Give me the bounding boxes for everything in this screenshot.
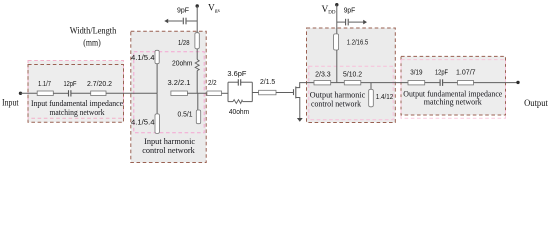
wire: TL14 to C5 <box>425 82 440 84</box>
transistor Q1 channel bar <box>295 87 297 99</box>
svg-text:matching network: matching network <box>50 107 106 117</box>
transmission line TL5 3.2/2.1 <box>171 91 188 96</box>
svg-text:5/10.2: 5/10.2 <box>343 71 362 78</box>
box: input fundamental matching network pink dashed border <box>28 61 124 119</box>
wire: TL1 to C1 <box>53 92 68 94</box>
caption: Input harmonic control network <box>142 136 195 155</box>
capacitor C1 12pF (series, input matching) <box>69 90 71 96</box>
transmission line TL15 1.07/7 <box>458 81 474 85</box>
box: input fundamental matching network (fill) <box>28 61 124 123</box>
wire: stub 1/28 to resistor R1 <box>196 49 198 60</box>
parallel RC stabilising network C3 3.6pF / R2 40ohm <box>228 82 252 101</box>
stub TL4 4.1/5.4 (open stub down at node A) <box>155 93 159 133</box>
svg-text:3/19: 3/19 <box>410 70 422 77</box>
wire: TL12 to node C and on to TL14 <box>361 82 408 84</box>
box: output fundamental matching network (fill) <box>401 56 506 115</box>
box: input harmonic control network (fill) <box>131 31 206 162</box>
transistor Q1 (FET) gate bar <box>293 89 295 95</box>
svg-text:4.1/5.4: 4.1/5.4 <box>131 120 155 127</box>
svg-text:2/1.5: 2/1.5 <box>260 79 275 86</box>
wire: TL15 to output dot <box>474 82 519 84</box>
resistor R2 40ohm (bottom branch) <box>228 100 252 104</box>
svg-text:1.2/16.5: 1.2/16.5 <box>347 40 368 47</box>
wire: C1 to TL2 <box>71 92 90 94</box>
wire: drain bias branch right segment <box>349 21 364 23</box>
svg-text:3.2/2.1: 3.2/2.1 <box>168 80 191 87</box>
box: output fundamental matching network red dashed border <box>401 56 506 115</box>
svg-text:2/3.3: 2/3.3 <box>315 71 331 78</box>
node: Vdd bias terminal dot <box>335 3 338 6</box>
wire: C5 to TL15 <box>443 82 457 84</box>
svg-text:9pF: 9pF <box>177 7 189 14</box>
capacitor C2 9pF (gate bias decoupling) <box>183 18 186 25</box>
box: input harmonic control network red dashed border <box>131 31 206 162</box>
svg-text:(mm): (mm) <box>83 37 101 48</box>
wire: gate bias branch left segment <box>166 20 183 22</box>
wire: input dot to TL1 <box>21 92 38 94</box>
transmission line TL1 1.1/7 <box>37 91 53 96</box>
transmission line TL11 2/3.3 <box>314 81 331 85</box>
caption: Output fundamental impedance matching network <box>403 88 502 106</box>
stub TL13 1.4/12 (open stub down at node C) <box>369 83 374 107</box>
box: output harmonic control network red dashed border <box>307 28 396 123</box>
svg-text:matching network: matching network <box>424 97 483 107</box>
capacitor C3 3.6pF (top branch) <box>228 79 252 85</box>
wire: gate bias branch right segment <box>187 20 198 22</box>
svg-text:control network: control network <box>311 99 362 109</box>
wire: Vdd dot down to stub 1.2/16.5 <box>336 5 338 34</box>
legend: Width/Length (mm) <box>70 27 117 49</box>
box: input fundamental matching network red dashed border <box>28 65 124 123</box>
wire: drain bias branch left segment <box>337 21 345 23</box>
stub TL7 0.5/1 (open stub down at node B) <box>196 93 200 123</box>
svg-text:Output: Output <box>524 99 548 109</box>
svg-text:1/28: 1/28 <box>178 40 190 47</box>
transmission line TL14 3/19 <box>408 81 425 85</box>
svg-text:12pF: 12pF <box>64 81 77 88</box>
svg-text:2.7/20.2: 2.7/20.2 <box>87 81 112 88</box>
box: input harmonic control network inner pink dashed border <box>134 52 204 133</box>
svg-text:3.6pF: 3.6pF <box>227 71 246 78</box>
node: Vgs bias terminal dot <box>196 4 199 7</box>
svg-text:9pF: 9pF <box>344 7 356 14</box>
wire: stub 1.2/16.5 down to output line node <box>336 50 338 83</box>
box: output harmonic control network inner pink dashed border <box>309 66 393 120</box>
svg-text:1.07/7: 1.07/7 <box>456 70 476 77</box>
wire: Q1 source down <box>296 98 300 119</box>
wire: TL9 to gate of Q1 <box>276 92 294 94</box>
svg-text:40ohm: 40ohm <box>229 109 249 116</box>
stub TL6 1/28 (gate bias line) <box>195 33 199 49</box>
resistor R1 20ohm <box>195 60 199 71</box>
wire: RC network to TL9 <box>252 92 258 94</box>
capacitor C5 12pF (series, output matching) <box>440 79 443 86</box>
ground (source of Q1, arrow symbol) <box>297 118 303 122</box>
svg-text:2/2: 2/2 <box>208 80 217 87</box>
svg-text:Input: Input <box>2 98 19 108</box>
transmission line TL8 2/2 <box>207 91 222 96</box>
terminal arrow: drain bias open end <box>363 20 367 25</box>
wire: TL11 to TL12 <box>331 82 345 84</box>
stub TL10 1.2/16.5 (drain bias line) <box>334 34 339 50</box>
transmission line TL12 5/10.2 <box>344 81 361 85</box>
transmission line TL9 2/1.5 <box>259 90 276 95</box>
svg-text:Width/Length: Width/Length <box>70 27 117 37</box>
box: output fundamental matching network pink dashed border <box>401 60 506 119</box>
wire: TL5 to node B <box>187 92 207 94</box>
svg-text:12pF: 12pF <box>435 70 448 77</box>
node: input terminal dot <box>19 92 22 95</box>
wire: Q1 drain to output line <box>296 83 314 88</box>
svg-text:4.1/5.4: 4.1/5.4 <box>131 55 155 62</box>
stub TL3 4.1/5.4 (open stub up at node A) <box>155 50 159 93</box>
terminal arrow: gate bias open end <box>164 19 168 24</box>
svg-text:20ohm: 20ohm <box>172 61 193 68</box>
svg-text:1.4/12: 1.4/12 <box>376 94 393 101</box>
wire: TL8 to RC network <box>222 92 229 94</box>
svg-text:control network: control network <box>142 145 195 155</box>
transmission line TL2 2.7/20.2 <box>91 91 106 96</box>
capacitor C4 9pF (drain bias decoupling) <box>346 19 349 26</box>
svg-text:0.5/1: 0.5/1 <box>178 112 193 119</box>
wire: TL2 to node A <box>106 92 157 94</box>
svg-text:1.1/7: 1.1/7 <box>38 81 51 88</box>
caption: Output harmonic control network <box>310 90 366 109</box>
box: output harmonic control network (fill) <box>307 28 396 123</box>
wire: resistor R1 to node B <box>196 71 198 94</box>
wire: Vgs dot down to stub 1/28 <box>196 6 198 33</box>
node: output terminal dot <box>516 81 519 84</box>
caption: Input fundamental impedance matching network <box>31 98 123 117</box>
